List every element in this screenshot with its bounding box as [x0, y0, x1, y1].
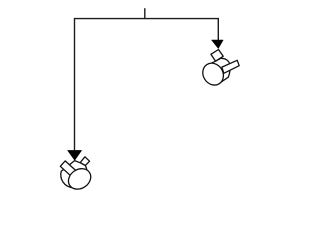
left socket body (cylinder silhouette)	[61, 161, 87, 188]
right socket lug (long band, right)	[222, 60, 239, 73]
right socket (bulb socket icon)	[199, 50, 240, 89]
left socket lug (diamond, top-right)	[80, 157, 89, 166]
right socket lug (diamond, top)	[211, 50, 223, 62]
arrow to right socket	[212, 40, 224, 49]
wire tick (callout stub)	[144, 8, 146, 18]
right socket body (cylinder)	[208, 58, 231, 84]
left socket lug (long band, top-left)	[60, 161, 76, 177]
arrow to left socket	[68, 150, 82, 160]
left socket face (front ellipse)	[65, 165, 95, 194]
right socket face (front ellipse)	[199, 59, 228, 89]
left socket (bulb socket icon)	[60, 157, 94, 193]
wire bracket	[75, 19, 219, 151]
